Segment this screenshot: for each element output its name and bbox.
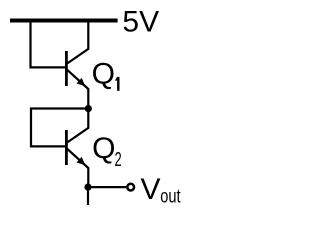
svg-text:2: 2	[115, 149, 122, 171]
svg-text:5V: 5V	[122, 6, 159, 39]
svg-text:Q: Q	[92, 58, 115, 91]
svg-text:Q: Q	[92, 132, 115, 165]
svg-text:V: V	[141, 173, 161, 206]
svg-text:out: out	[160, 186, 181, 208]
